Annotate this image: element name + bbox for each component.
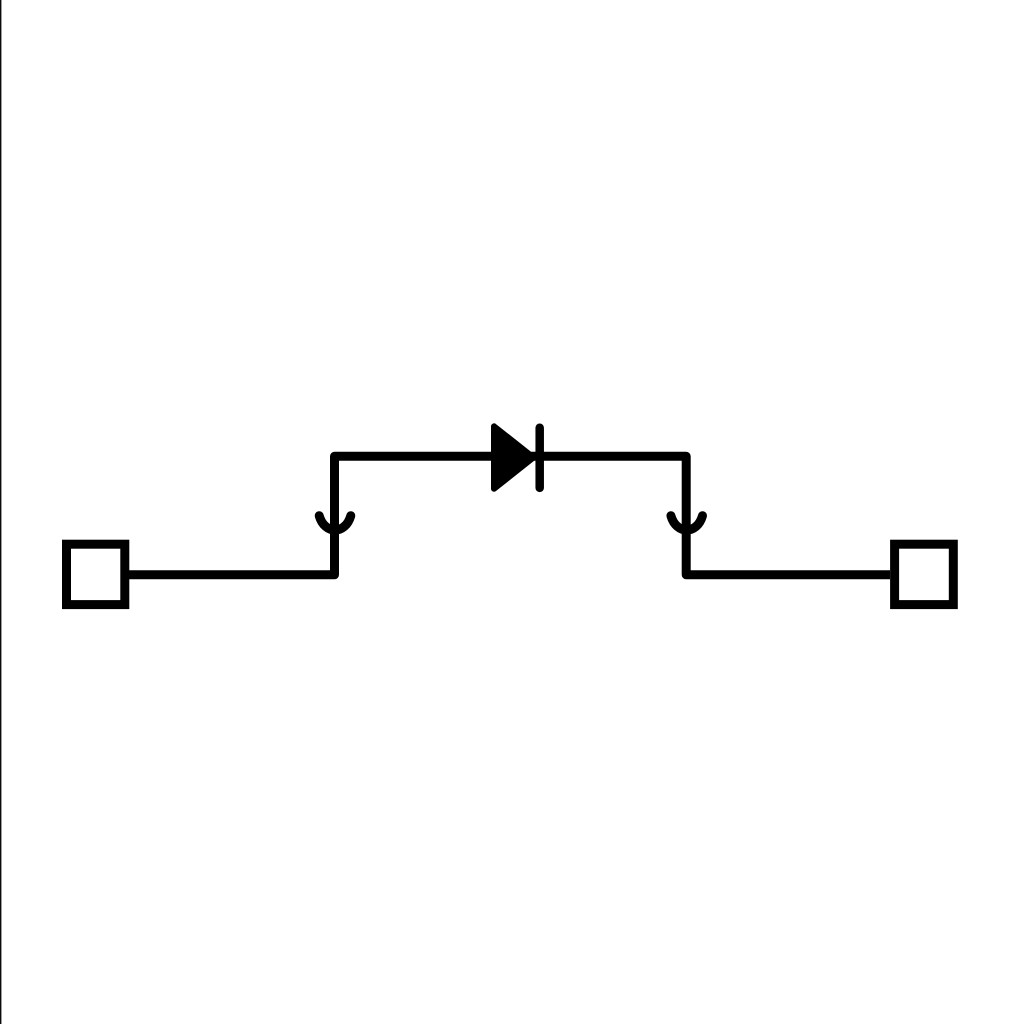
socket contact cup left xyxy=(319,516,351,530)
wire: left terminal to left vertical, up over top rail to right vertical, down to right terminal xyxy=(129,456,890,575)
terminal square right (clamp point 2) xyxy=(895,544,954,604)
diode D1 cathode bar xyxy=(535,428,544,488)
diode D1 anode triangle xyxy=(494,426,533,489)
socket contact cup right xyxy=(671,516,703,530)
left image-edge line xyxy=(0,0,1,1024)
terminal square left (clamp point 1) xyxy=(67,544,125,604)
